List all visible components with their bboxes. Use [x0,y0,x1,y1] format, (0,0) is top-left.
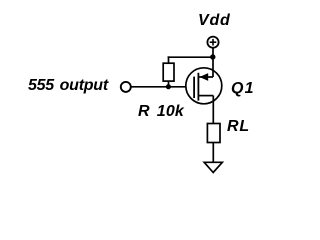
wire RL to ground [212,143,214,163]
svg-text:R 10k: R 10k [138,103,185,120]
node junction dot gate [166,84,171,89]
wire supply to node [212,48,214,57]
wire source down [212,96,214,124]
Vdd supply terminal [207,37,218,48]
input terminal [121,82,131,92]
svg-text:Q1: Q1 [231,80,255,97]
wire top horizontal [168,56,213,58]
wire resistor top [168,56,170,63]
resistor R [163,63,174,81]
svg-text:RL: RL [227,118,250,135]
node junction dot top [210,54,215,59]
wire gate [131,86,194,88]
wire drain to node [212,57,214,77]
resistor RL [207,124,220,143]
transistor Q1 [186,68,222,104]
svg-text:Vdd: Vdd [198,12,231,29]
svg-text:555 output: 555 output [28,77,109,94]
wire resistor bottom [168,81,170,87]
ground [204,162,222,172]
